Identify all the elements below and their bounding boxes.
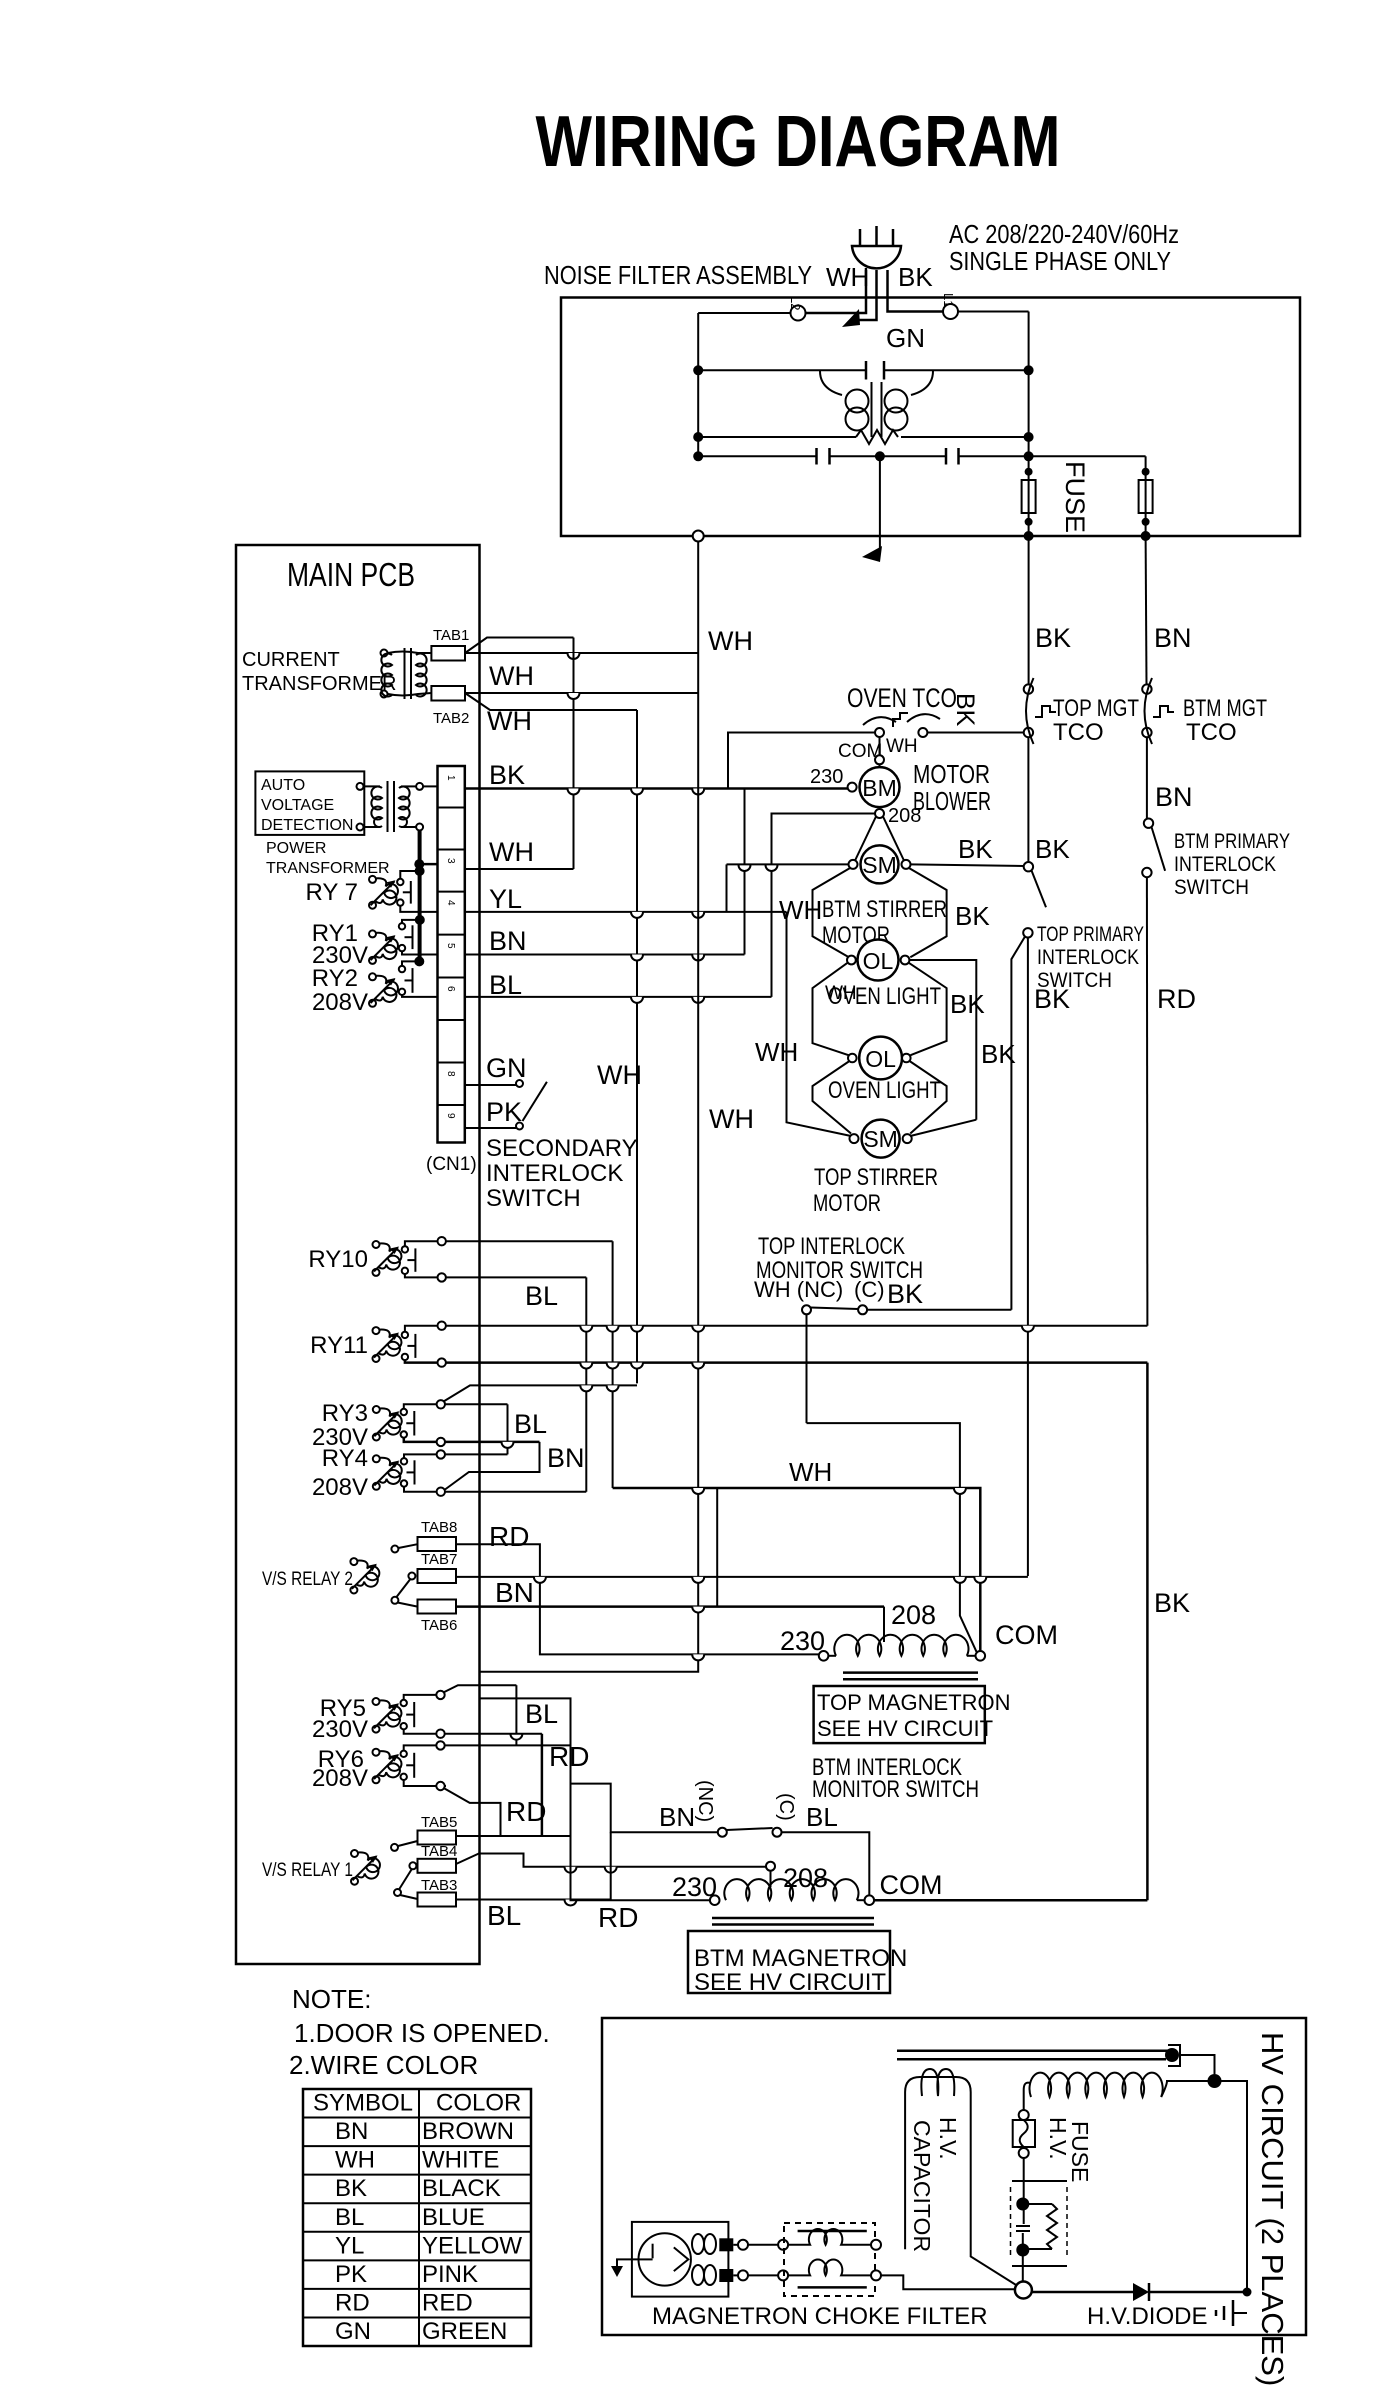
wire top primary lever wire	[1011, 937, 1025, 1310]
wire choke to COM	[881, 2275, 1015, 2289]
wire T3 out bottom	[401, 826, 416, 828]
connector CN1 divider y977	[438, 977, 465, 979]
relay RY4 contact tick	[407, 1471, 415, 1473]
hop RD over 698	[692, 1654, 704, 1660]
top magnetron coil lead right	[967, 1655, 976, 1657]
svg-text:TOP STIRRER: TOP STIRRER	[814, 1164, 938, 1191]
diode D1	[1133, 2283, 1149, 2301]
current transformer T2 top lead	[388, 652, 431, 654]
relay RY7 coil loops	[376, 878, 398, 904]
wire diode to corner	[1149, 2291, 1247, 2294]
svg-text:RD: RD	[1157, 984, 1196, 1014]
svg-text:WH: WH	[709, 1104, 754, 1134]
wire btm monitor C to COM	[782, 1832, 870, 1895]
wire TAB1 diag to bus573	[465, 638, 574, 654]
ground arrow magnetron	[611, 2266, 623, 2277]
relay RY5 contact bottom	[401, 1723, 407, 1729]
svg-text:TOP INTERLOCK: TOP INTERLOCK	[758, 1233, 905, 1260]
current transformer T2 core right	[410, 648, 412, 699]
HV transformer secondary line2	[897, 2058, 1166, 2061]
relay RY6 coil terminal top	[373, 1749, 380, 1756]
wire TAB8 stub	[398, 1544, 417, 1548]
svg-text:BK: BK	[1034, 984, 1070, 1014]
TAB5 terminal	[418, 1831, 457, 1845]
svg-text:208: 208	[783, 1863, 828, 1893]
hop RY11 top over 1027	[1022, 1326, 1034, 1332]
wire RY3 diag to 637	[444, 1385, 638, 1401]
svg-text:5: 5	[445, 943, 456, 949]
table row line 4	[303, 2202, 531, 2204]
ground bar3	[1215, 2310, 1218, 2316]
relay RY10 contact top	[402, 1246, 408, 1252]
wire fuse2 bottom lead	[1145, 513, 1147, 536]
btm magnetron core line1	[712, 1917, 874, 1920]
choke T1 core right	[881, 382, 883, 437]
wire RY6 bottom	[404, 1780, 446, 1786]
hop RY3 bus over 586	[580, 1385, 592, 1391]
hv top bracket	[1168, 2045, 1180, 2066]
svg-text:SWITCH: SWITCH	[486, 1185, 581, 1212]
hop TAB2 wire over 573	[568, 693, 580, 699]
svg-text:MAIN PCB: MAIN PCB	[287, 556, 415, 593]
wire cap row1 right	[884, 369, 1029, 371]
svg-text:WH: WH	[886, 736, 918, 757]
table row line 2	[303, 2145, 531, 2147]
wire pin9 PK	[465, 1127, 516, 1129]
wire RY3 bottom	[404, 1438, 540, 1442]
wire RY11 bottom corner down	[1146, 1363, 1149, 1901]
svg-text:GN: GN	[886, 323, 925, 353]
connector CN1 divider y891	[438, 891, 465, 893]
relay RY2 coil arrowhead	[387, 978, 396, 986]
svg-text:WH: WH	[789, 1457, 832, 1487]
magnetron terminal square bottom	[719, 2269, 733, 2282]
junction node row3 left	[693, 451, 703, 461]
wire BN route to monitor	[571, 1745, 718, 1832]
terminal RY6 bottom	[436, 1782, 444, 1790]
TAB7 terminal	[418, 1569, 457, 1583]
svg-text:WIRING DIAGRAM: WIRING DIAGRAM	[536, 102, 1061, 182]
svg-text:BN: BN	[659, 1802, 695, 1832]
svg-text:FUSE: FUSE	[1067, 2121, 1093, 2182]
relay RY2 coil loops	[376, 976, 398, 1002]
relay RY11 coil loops	[379, 1330, 401, 1356]
svg-text:1.DOOR IS OPENED.: 1.DOOR IS OPENED.	[294, 2018, 550, 2048]
relay RY11 coil arrowhead	[390, 1333, 399, 1341]
terminal GN	[516, 1080, 523, 1087]
current transformer T2 terminal top	[381, 650, 388, 657]
btm MGT TCO heater glyph	[1153, 706, 1174, 717]
power transformer T3 right coil	[399, 787, 410, 828]
power transformer T3 input bottom	[357, 824, 364, 831]
terminal L2	[791, 306, 806, 321]
vs relay2 coil terminal bottom	[350, 1587, 357, 1594]
svg-text:230V: 230V	[312, 1716, 368, 1743]
junction fuse1 bottom	[1025, 518, 1033, 526]
magnetron terminal square top	[719, 2238, 733, 2251]
svg-text:NOTE:: NOTE:	[292, 1984, 371, 2014]
wire RY5 bottom	[404, 1729, 542, 1733]
wire thick bus x419	[418, 831, 422, 962]
svg-text:WH: WH	[489, 837, 534, 867]
svg-text:GN: GN	[335, 2318, 371, 2345]
capacitor C3 plate right	[957, 448, 960, 465]
hop pin5 over 637	[631, 955, 643, 961]
relay RY10 coil terminal top	[373, 1241, 380, 1248]
current transformer T2 left coil	[381, 654, 392, 697]
svg-text:RY11: RY11	[310, 1332, 368, 1359]
svg-text:BK: BK	[951, 693, 979, 727]
wire RY7 top to bus	[400, 871, 419, 879]
relay RY2 contact tick	[405, 979, 413, 981]
hop pin5 over 698	[692, 955, 704, 961]
svg-text:RY2: RY2	[312, 965, 358, 992]
connector CN1 divider y807	[438, 807, 465, 809]
relay RY1 contact bar	[412, 925, 414, 949]
current transformer T2 terminal bottom	[381, 691, 388, 698]
relay RY7 contact bar	[410, 881, 412, 904]
svg-text:BL: BL	[806, 1802, 838, 1832]
svg-text:208V: 208V	[312, 1474, 368, 1501]
HV transformer secondary line1	[897, 2049, 1176, 2052]
btm monitor terminal NC	[718, 1828, 727, 1837]
hop WH1488 over 698	[692, 1488, 704, 1494]
wire row2 right	[901, 436, 1029, 438]
svg-text:BK: BK	[1035, 623, 1071, 653]
wire right drop to node	[1028, 312, 1030, 371]
SM2 terminal left	[850, 1134, 859, 1143]
wire BM 208 to BL	[772, 814, 876, 997]
terminal RY3 bottom	[437, 1438, 445, 1446]
terminal TAB7 stub	[408, 1573, 415, 1580]
top monitor switch terminal C	[858, 1305, 867, 1314]
svg-text:SYMBOL: SYMBOL	[313, 2090, 413, 2117]
relay RY6 contact top	[401, 1751, 407, 1757]
wire BN tie	[445, 1442, 540, 1490]
wire 208 tap top magnetron	[883, 1607, 885, 1642]
svg-text:COLOR: COLOR	[436, 2090, 521, 2117]
terminal choke out top	[871, 2240, 881, 2250]
fuse F2 inner	[1145, 480, 1147, 513]
junction x419 y871	[415, 866, 425, 876]
relay RY7 contact tick	[403, 891, 411, 893]
relay RY2 contact bar	[412, 968, 414, 993]
hop pin6 over 637	[631, 997, 643, 1003]
SM1 terminal right	[902, 860, 911, 869]
wire WH from plug	[806, 270, 866, 313]
HV capacitor loops	[921, 2069, 954, 2096]
choke T1 left lead	[820, 371, 842, 395]
table row line 6	[303, 2259, 531, 2261]
svg-text:208V: 208V	[312, 989, 368, 1016]
noise filter assembly box	[561, 298, 1300, 537]
terminal choke in top b	[778, 2240, 788, 2250]
relay RY5 coil loops	[379, 1700, 401, 1726]
ground bar1	[1232, 2300, 1235, 2326]
svg-text:BK: BK	[898, 262, 933, 292]
btm magnetron terminal 230	[710, 1895, 720, 1905]
wire RY7 bottom to pin4	[400, 906, 437, 912]
svg-text:BK: BK	[887, 1279, 923, 1309]
capacitor hv tick1	[1016, 2225, 1030, 2227]
svg-text:NOISE FILTER ASSEMBLY: NOISE FILTER ASSEMBLY	[544, 260, 812, 290]
terminal T3 out bottom	[416, 824, 423, 831]
hop pin1 over 698	[692, 789, 704, 795]
wire top primary bottom down	[1027, 938, 1029, 1577]
wire COM to diode	[1032, 2291, 1133, 2294]
top MGT TCO terminal bottom	[1024, 728, 1033, 737]
relay RY10 coil loops	[379, 1243, 401, 1269]
wire btm primary down RD	[1146, 877, 1149, 1325]
svg-text:208: 208	[891, 1600, 936, 1630]
relay RY5 coil terminal bottom	[373, 1726, 380, 1733]
wire L1 to right	[958, 311, 1029, 313]
OL2 terminal right	[902, 1054, 911, 1063]
magnetron cathode lead	[640, 2258, 653, 2260]
relay RY5 coil arrow	[374, 1704, 398, 1728]
oven TCO terminal right	[918, 728, 927, 737]
wire TAB2 WH to node698	[465, 692, 698, 694]
oven TCO terminal left	[875, 728, 884, 737]
relay RY4 contact bar	[414, 1460, 416, 1484]
svg-text:RD: RD	[335, 2289, 370, 2316]
MAIN PCB box	[236, 545, 480, 1964]
wire RY1 bottom to pin5	[402, 951, 438, 954]
svg-text:YL: YL	[489, 884, 522, 914]
wire fuse2 top lead	[1145, 456, 1147, 480]
relay RY7 coil arrowhead	[387, 880, 396, 888]
wire fuse to resistor	[1023, 2158, 1025, 2224]
terminal WH bottom	[693, 531, 704, 542]
wire GN ground from plug	[856, 270, 877, 320]
svg-text:BK: BK	[489, 760, 525, 790]
BM terminal 208	[875, 809, 884, 818]
relay RY3 coil loops	[379, 1408, 401, 1434]
top magnetron filament coil	[834, 1635, 968, 1656]
wire SM1 left chain	[813, 868, 851, 957]
wire bus down x573	[573, 638, 575, 870]
wire 208 tap btm	[770, 1871, 772, 1887]
btm stirrer motor SM circle	[861, 845, 899, 883]
wire RY4 bottom	[404, 1487, 586, 1492]
wire row3 to fuse2	[1029, 455, 1146, 457]
relay RY1 coil arrow	[371, 936, 395, 960]
relay RY2 contact bottom	[399, 989, 405, 995]
svg-text:BL: BL	[525, 1699, 558, 1729]
wire TAB3 riser x610	[610, 1832, 612, 1899]
wire BM to SM1 left	[855, 817, 876, 862]
current transformer T2 bottom lead	[388, 693, 431, 696]
connector CN1 divider y1020	[438, 1019, 465, 1021]
choke T1 core left	[871, 382, 873, 437]
svg-text:BTM MGT: BTM MGT	[1183, 695, 1267, 722]
wire T3 out top to CN1 pin1	[423, 785, 437, 787]
svg-text:BROWN: BROWN	[422, 2118, 514, 2145]
plug body	[852, 246, 901, 268]
wire row3 b	[830, 455, 947, 457]
wire ground stub	[1233, 2312, 1247, 2314]
hv coil left bend	[1024, 2083, 1030, 2110]
relay RY11 contact tick	[407, 1345, 415, 1347]
wire RY2 top to bus	[402, 961, 419, 966]
terminal PK	[516, 1123, 523, 1130]
wire BK from fuse1	[1028, 536, 1030, 684]
hop TAB7 line over 980	[974, 1577, 986, 1583]
svg-text:POWER: POWER	[266, 840, 326, 857]
hop WH1488 over 959	[954, 1488, 966, 1494]
wire monitor C to lever wire	[867, 1309, 1011, 1311]
terminal RY4 top	[437, 1450, 445, 1458]
btm magnetron box	[688, 1931, 890, 1993]
svg-text:HV CIRCUIT (2 PLACES): HV CIRCUIT (2 PLACES)	[1255, 2032, 1290, 2386]
svg-text:BK: BK	[958, 834, 993, 864]
svg-text:TAB1: TAB1	[433, 627, 469, 644]
relay RY6 contact tick	[406, 1764, 414, 1766]
svg-text:RY10: RY10	[308, 1246, 368, 1273]
wire RY3 top	[404, 1404, 508, 1409]
resistor assembly dashed left	[1010, 2187, 1012, 2258]
svg-text:COM: COM	[880, 1870, 943, 1900]
svg-text:MAGNETRON CHOKE FILTER: MAGNETRON CHOKE FILTER	[652, 2303, 988, 2330]
svg-text:BTM STIRRER: BTM STIRRER	[822, 896, 947, 923]
relay RY5 contact bar	[413, 1702, 415, 1727]
current transformer T2 right coil	[416, 654, 427, 697]
svg-text:V/S RELAY 1: V/S RELAY 1	[262, 1860, 353, 1881]
svg-text:OL: OL	[865, 1046, 896, 1072]
table row line 8	[303, 2316, 531, 2318]
relay RY11 coil arrow	[374, 1334, 398, 1358]
vs relay2 coil arrow	[352, 1565, 376, 1589]
wire row3 c	[959, 455, 1029, 457]
top primary interlock lever	[1032, 871, 1047, 908]
wire WH main vertical x698	[480, 542, 699, 1672]
wire RY11 top bus	[405, 1326, 1148, 1332]
wire RY10 bottom	[405, 1274, 586, 1277]
btm magnetron coil lead right	[857, 1899, 865, 1901]
junction fuse2 bottom	[1142, 518, 1150, 526]
top magnetron core line1	[843, 1671, 978, 1674]
relay RY1 coil terminal bottom	[369, 957, 376, 964]
TAB2 terminal	[431, 686, 465, 701]
wire oven tco feed	[728, 733, 875, 789]
svg-text:(NC): (NC)	[694, 1780, 716, 1822]
relay RY10 contact bar	[414, 1248, 416, 1271]
oven TCO arc left	[863, 717, 896, 725]
vs relay1 coil terminal top	[351, 1850, 358, 1857]
wire TAB4 RD line	[456, 1854, 766, 1867]
junction node row3 center	[875, 451, 885, 461]
vs relay2 lever	[397, 1580, 411, 1598]
hop RY11 top over 586	[580, 1326, 592, 1332]
hop RY11 top over 612	[607, 1326, 619, 1332]
svg-text:TRANSFORMER: TRANSFORMER	[266, 860, 390, 877]
top magnetron box	[814, 1686, 985, 1743]
svg-text:4: 4	[445, 900, 456, 906]
wire RD tie x541	[541, 1734, 544, 1836]
svg-text:AUTO: AUTO	[261, 777, 305, 794]
junction x419 y920	[415, 915, 425, 925]
svg-text:BL: BL	[525, 1281, 558, 1311]
svg-text:TAB4: TAB4	[421, 1843, 457, 1860]
svg-text:TOP PRIMARY: TOP PRIMARY	[1037, 923, 1144, 946]
wire RY10 top	[405, 1241, 613, 1246]
svg-text:SINGLE PHASE ONLY: SINGLE PHASE ONLY	[949, 246, 1171, 276]
svg-text:230: 230	[780, 1626, 825, 1656]
svg-text:SECONDARY: SECONDARY	[486, 1135, 638, 1162]
wire magnetron ground	[617, 2259, 640, 2266]
relay RY1 coil loops	[376, 933, 398, 959]
wire L2 to left	[698, 312, 790, 314]
junction hv right	[1208, 2074, 1222, 2088]
hop pin4 over 698	[692, 912, 704, 918]
svg-text:DETECTION: DETECTION	[261, 817, 353, 834]
wire mag-choke bottom b	[748, 2274, 778, 2276]
terminal choke in bottom a	[738, 2270, 748, 2280]
relay RY1 coil terminal top	[369, 930, 376, 937]
terminal L1	[943, 304, 958, 319]
wire BL tie x516	[515, 1685, 517, 1745]
svg-text:TCO: TCO	[1053, 719, 1104, 746]
vs relay2 coil arrowhead	[368, 1564, 377, 1572]
wire center ground drop	[879, 456, 881, 552]
top magnetron coil lead left	[828, 1655, 836, 1657]
junction node row1 left	[693, 365, 703, 375]
wire RY4 top	[404, 1454, 508, 1458]
junction node row2 right	[1024, 432, 1034, 442]
svg-text:COM: COM	[995, 1620, 1058, 1650]
relay RY7 coil terminal top	[369, 876, 376, 883]
wire mag-choke bottom a	[733, 2274, 738, 2276]
wire OL1 right drop	[909, 960, 976, 1120]
vs relay1 coil terminal bottom	[351, 1878, 358, 1885]
TAB1 terminal	[431, 646, 465, 661]
terminal RY10 bottom	[438, 1273, 446, 1281]
wire mag-choke top a	[733, 2244, 738, 2246]
btm magnetron core line2	[712, 1923, 874, 1926]
relay RY1 contact bottom	[399, 945, 405, 951]
power transformer T3 input top	[357, 783, 364, 790]
magnetron box	[632, 2222, 729, 2297]
svg-text:WH: WH	[779, 895, 822, 925]
wire TAB6 BN line	[456, 1605, 884, 1608]
relay RY3 coil arrowhead	[390, 1411, 399, 1419]
top primary interlock terminal bottom	[1023, 928, 1032, 937]
vs relay2 coil terminal top	[350, 1558, 357, 1565]
vs relay1 coil loops	[358, 1852, 380, 1878]
svg-text:TCO: TCO	[1186, 719, 1237, 746]
wire BM to SM1 right	[883, 817, 904, 862]
svg-text:MOTOR: MOTOR	[913, 759, 990, 789]
wire pin3a	[419, 863, 437, 866]
svg-text:BK: BK	[955, 901, 990, 931]
wire BL tie x507	[507, 1404, 509, 1454]
wire OL2 left chain	[813, 1061, 852, 1134]
wire TAB7 WH line	[456, 1576, 1028, 1578]
relay RY10 contact tick	[407, 1259, 415, 1261]
junction hv top	[1165, 2048, 1179, 2062]
wire cap row1 left	[698, 369, 866, 371]
junction resistor top	[1016, 2198, 1029, 2211]
svg-text:OL: OL	[863, 948, 894, 974]
relay RY3 contact tick	[406, 1422, 414, 1424]
svg-text:BL: BL	[489, 970, 522, 1000]
svg-text:FUSE: FUSE	[1060, 461, 1090, 533]
svg-text:RY 7: RY 7	[306, 879, 359, 906]
relay RY2 coil terminal bottom	[369, 1000, 376, 1007]
svg-text:RY4: RY4	[322, 1445, 368, 1472]
svg-text:BN: BN	[495, 1577, 534, 1608]
svg-text:L1: L1	[941, 293, 956, 307]
